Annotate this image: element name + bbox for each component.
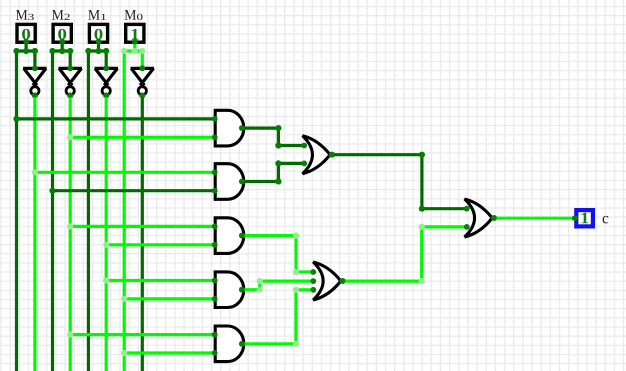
wire inverter NOT0 output vertical bus — [141, 94, 144, 371]
and-gate AND2 — [212, 164, 245, 200]
wire AND4 input B feed — [124, 297, 215, 300]
node AND4 output port — [239, 287, 245, 293]
or-gate OR1 — [301, 136, 335, 174]
wire AND1 input B feed — [70, 136, 215, 139]
wire OR2 output to OR3 — [342, 227, 467, 281]
wire AND3 output to OR2 — [242, 236, 313, 272]
input pin M1 label — [88, 10, 106, 20]
node pin M1 output port — [96, 39, 102, 45]
node AND5 output port — [239, 341, 245, 347]
node AND3 input B tap — [103, 242, 109, 248]
node pin M0 output port — [132, 39, 138, 45]
wire M1 to inverter input — [105, 51, 108, 68]
node AND2 input B tap — [49, 188, 55, 194]
inverter NOT0 — [131, 65, 155, 97]
input pin M3 box value 0 — [17, 24, 35, 42]
node M1 junction dots — [85, 48, 109, 54]
wire M0 junction horizontal — [124, 49, 142, 52]
wire AND2 output to OR1 — [242, 163, 304, 181]
wire M0 left vertical bus — [123, 51, 126, 371]
wire M1 junction horizontal — [88, 49, 106, 52]
node AND1 output port — [239, 125, 245, 131]
wire M2 junction horizontal — [53, 49, 71, 52]
or-gate OR2 three-input — [310, 262, 346, 300]
node AND3 path bends — [293, 233, 299, 276]
node AND1 path bends — [275, 125, 281, 149]
wire M2 left vertical bus — [51, 51, 54, 371]
wire AND3 input B feed — [106, 243, 215, 246]
output pin c box value 1 — [572, 210, 593, 226]
node AND4 path bends — [257, 278, 263, 293]
and-gate AND3 — [212, 218, 245, 254]
wire AND1 input A feed — [17, 117, 216, 120]
node AND1 input A tap — [13, 116, 19, 122]
inverter NOT2 — [59, 65, 83, 97]
node AND5 input A tap — [67, 332, 73, 338]
node OR2 output port — [339, 278, 345, 284]
and-gate AND4 — [212, 272, 245, 308]
wire inverter NOT2 output vertical bus — [69, 94, 72, 371]
input pin M0 box value 1 — [126, 24, 144, 42]
wire pin M2 stub down — [61, 42, 64, 51]
output pin c label — [603, 216, 609, 224]
node M3 junction dots — [13, 48, 38, 54]
wire pin M1 stub down — [97, 42, 100, 51]
node AND2 input A tap — [32, 169, 38, 175]
node OR3 output port — [491, 215, 497, 221]
node OR1 path bends — [419, 152, 425, 212]
wire OR1 output to OR3 — [332, 155, 467, 209]
input pin M3 label — [16, 10, 34, 20]
node AND4 input B tap — [121, 296, 127, 302]
wire M0 to inverter input — [141, 51, 144, 68]
input pin M0 label — [125, 10, 143, 20]
or-gate OR3 final — [464, 199, 497, 237]
wire inverter NOT3 output vertical bus — [33, 94, 36, 371]
wire AND3 input A feed — [70, 225, 215, 228]
wire inverter NOT1 output vertical bus — [105, 94, 108, 371]
wire AND5 input B feed — [124, 351, 215, 354]
input pin M2 box value 0 — [53, 24, 71, 42]
input pin M1 box value 0 — [89, 24, 107, 42]
wire AND5 output to OR2 — [242, 290, 313, 344]
node AND2 output port — [239, 179, 245, 185]
wire M3 left vertical bus — [15, 51, 18, 371]
wire M1 left vertical bus — [87, 51, 90, 371]
and-gate AND5 — [212, 326, 245, 362]
node M2 junction dots — [49, 48, 73, 54]
node AND3 input A tap — [67, 223, 73, 229]
and-gate AND1 — [212, 110, 245, 146]
wire M3 to inverter input — [33, 51, 36, 68]
node pin M3 output port — [23, 39, 29, 45]
node M0 junction dots — [121, 48, 145, 54]
input pin M2 label — [52, 10, 70, 20]
node OR1 output port — [329, 152, 335, 158]
inverter NOT3 — [23, 65, 46, 97]
wire M3 junction horizontal — [17, 49, 35, 52]
wire pin M0 stub down — [133, 42, 136, 51]
wire AND5 input A feed — [70, 333, 215, 336]
node AND3 output port — [239, 233, 245, 239]
wire pin M3 stub down — [25, 42, 28, 51]
node AND2 path bends — [275, 160, 281, 184]
node AND5 input B tap — [121, 350, 127, 356]
wire AND2 input B feed — [53, 189, 216, 192]
node AND5 path bends — [293, 287, 299, 347]
inverter NOT1 — [95, 65, 119, 97]
wire AND4 output to OR2 — [242, 281, 313, 290]
wire OR3 output to pin c — [494, 217, 575, 220]
wire M2 to inverter input — [69, 51, 72, 68]
node OR2 path bends — [419, 224, 425, 284]
node AND4 input A tap — [103, 277, 109, 283]
wire AND1 output to OR1 — [242, 128, 304, 145]
node pin M2 output port — [59, 39, 65, 45]
wire AND4 input A feed — [106, 279, 215, 282]
node AND1 input B tap — [67, 134, 73, 140]
wire AND2 input A feed — [35, 171, 215, 174]
